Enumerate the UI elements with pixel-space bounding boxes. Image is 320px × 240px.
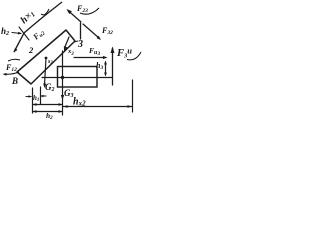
perpendicular tick on Fu2 line [19, 27, 29, 40]
force F23 arrow (up-left) [68, 11, 81, 23]
link 2 bar (diagonal rotated rectangle) [17, 30, 75, 84]
svg-text:2: 2 [28, 45, 34, 55]
dimension h1 (outside arrows) [26, 96, 31, 98]
swoosh after hx1 [41, 9, 49, 15]
slider (link 3) rectangle [58, 67, 98, 88]
force F32 arrow (down-right) [83, 24, 100, 39]
dimension hx2 (horizontal) [63, 106, 132, 108]
guide centerline [42, 77, 112, 79]
second extension line [40, 87, 42, 104]
vertical reference line through pin [62, 51, 64, 115]
swoosh under F23 [80, 8, 99, 14]
right dimension extension line [132, 80, 134, 112]
dimension h2 (bottom) [33, 111, 63, 113]
svg-text:B: B [11, 76, 18, 86]
inertia force Fu2 line of action (long diagonal arrow) [14, 2, 62, 52]
weight G3 arrowhead [61, 95, 64, 100]
force F34 arrow (vertical up) [112, 48, 114, 85]
svg-text:3: 3 [77, 39, 83, 50]
pin arrow at slider (steep, filled head) [65, 37, 70, 48]
vertical line from F23 junction down [80, 23, 82, 39]
link number 3 label with leader dash [74, 41, 78, 42]
svg-text:s2: s2 [47, 59, 53, 65]
force F12 arrow (pointing left) [4, 72, 19, 74]
overbar of F12 [8, 59, 20, 61]
dimension h3 (vertical) [105, 62, 107, 75]
pin dot at slider center [61, 76, 64, 79]
unnamed dimension row [33, 104, 63, 106]
left dimension extension line [32, 88, 34, 113]
weight G2 arrow [45, 58, 47, 85]
inertia force Fu3 arrow (horizontal right) [74, 57, 105, 59]
swoosh under F3u [127, 52, 141, 60]
center of mass S2 dot [45, 57, 48, 60]
